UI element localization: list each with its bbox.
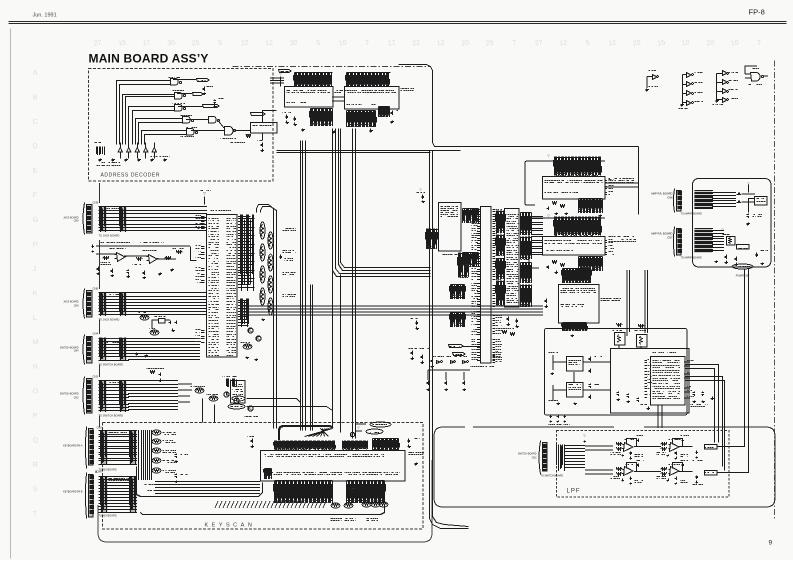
svg-text:TO AMP/PBBOARD: TO AMP/PBBOARD [681,257,703,260]
trimmer resistors [617,324,623,327]
bus vertical pair to keyscan ic [352,129,354,439]
ic19 box [251,123,278,134]
svg-text:AMP P.B. BOARD: AMP P.B. BOARD [651,192,673,196]
amp box left vertical [638,147,640,215]
resistors R11 R15 R17 [103,257,109,260]
svg-text:TO SWITCH BOARD: TO SWITCH BOARD [541,475,564,478]
signal box to rom [279,70,292,73]
rom IC17 label [335,91,347,93]
signal label box CS1 [197,79,210,82]
faint left grid letters [32,70,39,518]
power arrow rom [280,77,282,87]
address decoder dashed box [89,69,274,182]
inverter IC20A [653,75,658,80]
lpf opamp U6A [624,467,634,476]
gate array label [507,215,520,303]
rom IC17 pin band bottom [311,109,333,127]
hatch block left of cpu lowest [451,313,465,328]
bus vertical pair rom a [300,141,302,431]
CN2 fan wires [565,446,585,468]
cpu left pins lower [477,284,481,307]
ram IC18 label [401,89,415,91]
svg-text:CN9: CN9 [93,201,99,205]
gnd cn7 [715,261,719,263]
ram IC18 pin band top [347,73,389,88]
svg-text:ADDRESS DECODER: ADDRESS DECODER [101,173,161,179]
cpu right pins lower [493,286,496,307]
svg-text:TO KEYBOARD: TO KEYBOARD [99,515,117,518]
keyscan ic top pin band A [275,441,335,450]
cap C64 [756,253,759,258]
lpf caps U6A [637,464,640,468]
svg-text:Jun. 1991: Jun. 1991 [33,13,57,19]
svg-text:J: J [32,266,36,273]
svg-text:30: 30 [167,39,176,47]
connector CN7 [674,227,675,257]
bus vertical quad rom to bend [333,129,431,277]
cpu IC5 left stub labels bottom [201,331,205,343]
nand gate IC23 [751,73,761,82]
svg-text:12: 12 [608,39,617,47]
svg-text:15: 15 [118,39,127,47]
resistor R16 [177,251,183,254]
wave ram IC12 pin band top [563,269,591,284]
faint top grid numbers [93,39,761,47]
caps C43 C44 [693,392,696,397]
ra oval h1 [243,344,252,349]
gnd amp1 [747,223,751,226]
svg-text:9: 9 [769,540,773,547]
ra oval RA18 [150,330,159,335]
svg-text:22: 22 [240,39,249,47]
buffer array inputs [118,148,122,153]
lpf gnd U5B [667,455,670,457]
power sw oval [732,264,753,269]
keyboard oval label [370,422,391,427]
lpf gnd U6A [622,479,625,482]
wires cn5 block to ic left [155,482,260,494]
ram IC16 left pin band [427,229,439,250]
cap C62 [725,255,728,260]
wires CN9 to IC5 [128,207,207,231]
resistor R53 box [737,245,750,250]
cpu left pins bottom [477,312,481,335]
signal box clk [453,353,466,356]
vertical RA oval column A [260,222,265,239]
svg-text:15: 15 [657,39,666,47]
header rule [9,21,787,23]
nand gate IC13B [175,93,183,100]
connector CN2 [539,441,541,475]
crystal X1 circuit [159,319,166,324]
lpf inter wires [634,447,661,472]
wires ovals to ic [356,424,366,431]
cpu left pins upper [477,210,481,251]
cpu IC5 left pin stubs upper [201,217,205,229]
resistor network RA14 [97,147,105,156]
keyscan thick bus lower [141,505,385,515]
cpu IC5 internal text right col [227,219,237,356]
svg-text:27: 27 [93,39,102,47]
gate array right pin bands [521,213,532,236]
sound gen IC11 right pins [605,241,608,255]
board outline bottom around keyscan [98,460,432,542]
lpf caps U5A [637,439,640,443]
gnd rom1 [302,129,306,132]
gnd analog 1 [159,273,163,276]
cap C50 [261,143,264,148]
inverter column IC22 [723,71,728,76]
left page edge line [10,29,12,559]
svg-text:10: 10 [338,39,347,47]
svg-text:CN6: CN6 [97,470,103,474]
reset box oval [228,404,245,409]
RA column labels [283,229,297,231]
signal label box CS4 [251,113,266,116]
vertical wires sound gens to dac trimmers [627,270,648,333]
svg-text:17: 17 [142,39,151,47]
lpf caps U6B [682,464,685,468]
ra oval column keyscan [152,430,161,435]
mkd arrow labels [145,484,161,486]
keyscan ic inner top microtext [265,455,385,457]
decoder output wire right [263,111,277,123]
resistor pair right of cpu [503,331,507,334]
transistor Q6 [256,336,261,341]
wire block from CN9 [99,207,130,231]
cpu IC5 left stub labels mid [201,247,205,259]
IC10 left parts [553,202,557,205]
svg-text:M: M [32,339,39,347]
gate array to sound gen wires [531,217,543,255]
wire block CN5 [99,431,138,465]
bus horizontal center lines [240,306,543,315]
dac IC4 label [653,352,677,354]
dac wires to bottom [658,405,662,428]
cpu IC5 internal text left col [209,219,220,356]
sound gen IC11 label [609,237,637,242]
keyscan ic top pin band C [373,439,399,452]
bus wires decoder to cpu [277,150,461,152]
svg-text:KEYBOARD PA-A: KEYBOARD PA-A [63,445,83,448]
CN7 resistor block [694,229,712,253]
gnd ram2 [391,121,395,124]
lpf resistors U6B [661,468,667,471]
svg-text:20: 20 [461,39,470,47]
svg-text:22: 22 [412,39,421,47]
dac output wires right [685,365,719,443]
svg-text:CN6: CN6 [667,196,673,200]
ram IC18 aux pin block [379,107,390,118]
dac wires left [553,355,610,400]
nand gate IC13E [187,129,195,136]
bus elbow from tall ic [257,205,274,429]
cap C48 [203,87,206,92]
lpf out wire U5A [635,446,647,448]
caps right cpu area [416,321,419,326]
lpf resistors U5A [617,443,623,446]
gnd IC22 [716,99,720,103]
svg-text:MAIN BOARD ASS’Y: MAIN BOARD ASS’Y [89,52,209,66]
sound gen IC11 pin band bottom [579,257,603,272]
cpu IC5 body [207,215,238,358]
dac inner box [611,349,690,414]
svg-text:TO JACK BOARD: TO JACK BOARD [99,234,120,238]
signal label box CS3 [203,105,220,108]
IC10 gnd right [599,215,603,217]
lpf out wire U5B [679,446,693,448]
opamp IC15A TL062 [117,253,126,262]
lpf opamp U6B [670,467,680,476]
rom IC17 body [285,87,334,108]
wires cn6 caps [741,194,755,202]
ra oval RA16 [140,315,149,320]
signal label box CS2 [193,93,204,96]
svg-text:25: 25 [485,39,494,47]
connector CN9 JACK BOARD [83,203,85,235]
svg-text:10: 10 [681,39,690,47]
svg-text:CN9: CN9 [74,220,79,223]
board outline top dash-dot [233,66,431,68]
wires IC10 right to amp area [605,183,638,187]
cap C10 [92,245,95,249]
decoder gate outputs [173,80,224,131]
gnd pair right [711,397,715,400]
keyscan ic inner left pin block [265,469,272,480]
cpu IC2 label [471,366,495,368]
wires CN3 right [128,381,178,410]
nand gate IC13C [175,105,183,112]
svg-text:25: 25 [191,39,200,47]
lpf out wire U6A [635,471,647,473]
cpu IC5 right fan hatch [241,215,254,292]
dac opamp A rect [567,357,584,372]
sound gen IC10 body [543,177,606,200]
lpf opamp U5A [624,443,634,452]
keyscan ra labels bottom [331,519,343,521]
svg-text:CN2: CN2 [532,457,537,460]
wave ram IC12 body [559,285,600,324]
IC11 left parts [553,261,557,264]
trimmer VR1 [637,335,648,348]
nand gate IC14A [209,117,217,124]
svg-text:10: 10 [730,39,739,47]
cpu IC2 body [481,207,492,364]
keyscan ic label right [409,453,425,455]
sound gen IC10 pin band top [555,157,601,176]
lpf input wires from dac [585,446,613,474]
rom IC17 pin band top [295,73,332,88]
cap C49 [214,100,217,105]
dac gnd bottom [647,407,651,410]
caps near rom cluster [286,115,289,120]
transistor Q5 [248,328,253,333]
cap C63 [735,257,738,262]
hatch block left of cpu low [451,285,465,300]
board outline left segments [96,183,100,473]
lpf out label R [705,445,718,450]
gate array left pin bands [497,211,505,234]
cap C53 below gate array [507,317,510,322]
svg-text:TO SWITCH BOARD: TO SWITCH BOARD [99,363,124,367]
svg-text:H: H [32,241,38,248]
svg-text:SWITCH BOARD: SWITCH BOARD [518,453,537,456]
svg-text:20: 20 [632,39,641,47]
decoder wiring matrix [117,81,157,145]
cpu IC5 right wire fan [238,217,255,288]
lpf dashed box [557,431,730,498]
keyscan ic inner bottom microtext [265,473,401,475]
ra oval near cn3 [195,388,204,393]
lpf caps U5B [682,439,685,443]
cap C65 mid [280,255,283,260]
dac caps column [589,357,592,362]
gnd cluster below buffers [99,159,103,162]
svg-text:CN8: CN8 [93,287,99,291]
keyscan cap mid bottom [351,490,354,494]
wires cn3 cluster to keyscan [202,399,204,423]
ram IC18 body [345,87,400,110]
lpf outer rounded box [434,427,775,507]
wires CN8 to IC5 [128,293,207,315]
keyscan ic bottom pin band B [347,481,385,504]
label A-13 [549,400,559,402]
sound gen IC10 pin band bottom [579,199,603,214]
svg-text:R: R [32,461,38,468]
osc wires [428,370,470,380]
CN6 resistor block [694,191,712,209]
svg-text:POWER SW: POWER SW [736,275,750,278]
svg-text:CN8: CN8 [74,305,79,308]
svg-text:FP-8: FP-8 [749,8,765,17]
trim pot VR3 [727,237,736,246]
dac area caps bottom [617,392,620,397]
connector CN4 SWITCH BOARD [83,335,85,365]
osc caps [427,381,430,386]
cpu right pins xtra [493,340,496,361]
keyscan fan [305,429,333,437]
keyscan bus fan hatch [215,501,326,508]
svg-text:12: 12 [559,39,568,47]
wave ram gnd [571,335,575,337]
keyscan caps mid [175,454,178,459]
sound gen IC10 label [609,179,635,183]
svg-text:KEYSCAN: KEYSCAN [205,523,256,529]
keyscan caps left [251,439,254,444]
connector CN3 SWITCH BOARD [83,377,85,415]
lpf resistors U6A [617,468,623,471]
pin block below IC16 [459,253,469,278]
gnd cluster cn4 [136,353,140,356]
reset signal box [449,345,464,348]
gate array IC3 body [505,209,520,308]
svg-text:12: 12 [265,39,274,47]
sound gen IC10 bus wrap [525,161,605,205]
cap C52 near IC16 [422,195,425,200]
decoder misc labels [235,130,251,132]
opamp IC15B TL062 [149,255,158,264]
svg-text:17: 17 [387,39,396,47]
wires CN4 to IC5 [128,339,200,360]
keyscan ic top pin band B [343,441,368,450]
wire block from CN8 [99,293,130,315]
keyscan ic bottom pin band A [275,481,333,504]
cpu right pins upper [493,210,496,251]
osc gates 74HC04 cluster [437,361,441,364]
svg-text:27: 27 [534,39,543,47]
CN2 resistor block [557,445,565,472]
svg-text:20: 20 [706,39,715,47]
lpf gnd U5A [622,455,625,457]
inverter column IC21 [687,73,692,78]
svg-text:30: 30 [289,39,298,47]
svg-text:C: C [32,118,38,125]
cpu right pins middle [493,254,496,280]
keyscan right cap [408,439,411,444]
CN7 wires right [712,231,724,251]
label +A13 [549,352,559,354]
cpu IC5 label top [211,210,232,212]
connector CN8 JACK BOARD [83,289,85,319]
dac bottom caps row [550,415,553,419]
ra oval near cn3 b [209,396,218,401]
wire block CN6k [99,477,138,513]
svg-text:N: N [32,363,38,370]
svg-text:CN3: CN3 [74,397,79,400]
ram IC18 top bus line [347,72,391,74]
svg-text:KEYBOARD PA-B: KEYBOARD PA-B [63,491,83,494]
lpf out label L [705,471,718,476]
nand gate IC13A [171,79,179,86]
gnd IC21 [681,103,685,107]
sound gen IC11 pin band top [555,217,601,236]
caps analog section [97,267,100,272]
lpf output caps [696,451,699,455]
svg-text:D: D [32,143,38,150]
keyscan dashed box [103,423,424,530]
cpu IC5 left stub labels low [201,269,205,283]
lpf opamp U5B [670,443,680,452]
cap C61 [737,201,742,204]
rom IC17 top bus line [295,72,333,74]
ram IC16 body [439,203,462,252]
ram IC18 pin band bottom [347,111,376,128]
signal oval MIDI [232,396,245,401]
bus vertical pair A [430,151,469,529]
amp section rounded box [693,179,772,268]
dac gnds left [551,373,555,375]
dac top wires from trimmers [619,332,641,348]
trimmer VR2 [615,333,626,346]
svg-text:LPF: LPF [567,489,581,495]
bus vertical pair mid extra [310,285,312,431]
CN6 wires right [712,193,736,207]
lpf gnd U6B [667,479,670,482]
dac opamp B rect [567,383,584,398]
gnd analog 2 [171,269,175,272]
wires rom to ram [332,97,344,101]
svg-text:AMP P.B. BOARD: AMP P.B. BOARD [651,232,673,236]
lpf outer box top notch [443,426,491,428]
keyscan ic IC1 body [261,451,406,482]
svg-text:CN3: CN3 [93,375,99,379]
sound gen IC10 right pins [605,181,608,195]
hatch block left of cpu upper [463,209,479,224]
gnd IC20A [646,89,650,92]
transistor Q3 [224,392,229,397]
svg-text:CN5: CN5 [97,426,103,430]
sound gen IC11 body [543,237,606,256]
